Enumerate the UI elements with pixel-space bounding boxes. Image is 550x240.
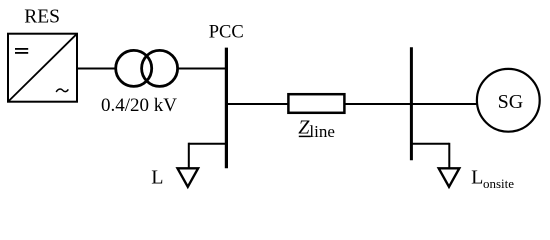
bus 2	[410, 47, 413, 160]
wire Z_line to bus 2	[345, 103, 412, 105]
svg-text:RES: RES	[24, 7, 60, 28]
converter box RES	[8, 34, 77, 102]
svg-text:L: L	[471, 167, 483, 189]
label Z_line	[298, 117, 335, 142]
load L_onsite arrow triangle	[439, 168, 460, 187]
impedance Z_line box	[288, 94, 344, 113]
converter diagonal	[9, 34, 77, 101]
load L arrow triangle	[178, 168, 199, 187]
bus PCC	[225, 48, 228, 169]
label L_onsite	[471, 167, 514, 191]
wire onsite load branch vertical	[448, 143, 450, 168]
wire box to transformer	[77, 68, 116, 70]
wire onsite load branch horizontal	[411, 143, 449, 145]
svg-text:0.4/20 kV: 0.4/20 kV	[101, 95, 177, 116]
svg-text:PCC: PCC	[209, 23, 244, 43]
DC symbol (=)	[15, 49, 28, 53]
generator SG circle	[477, 69, 540, 132]
svg-text:line: line	[309, 122, 335, 141]
wire load L branch vertical	[188, 143, 190, 168]
wire PCC bus to Z_line	[226, 103, 288, 105]
wire transformer to PCC bus	[178, 68, 226, 70]
svg-text:onsite: onsite	[483, 176, 514, 191]
svg-text:SG: SG	[498, 91, 524, 113]
transformer T1 primary circle	[116, 50, 152, 86]
transformer T1 secondary circle	[142, 50, 178, 86]
AC symbol (~)	[56, 89, 68, 92]
svg-text:Z: Z	[298, 117, 310, 139]
wire bus 2 to SG	[411, 103, 478, 105]
svg-text:L: L	[151, 167, 163, 189]
wire load L branch horizontal	[189, 143, 227, 145]
